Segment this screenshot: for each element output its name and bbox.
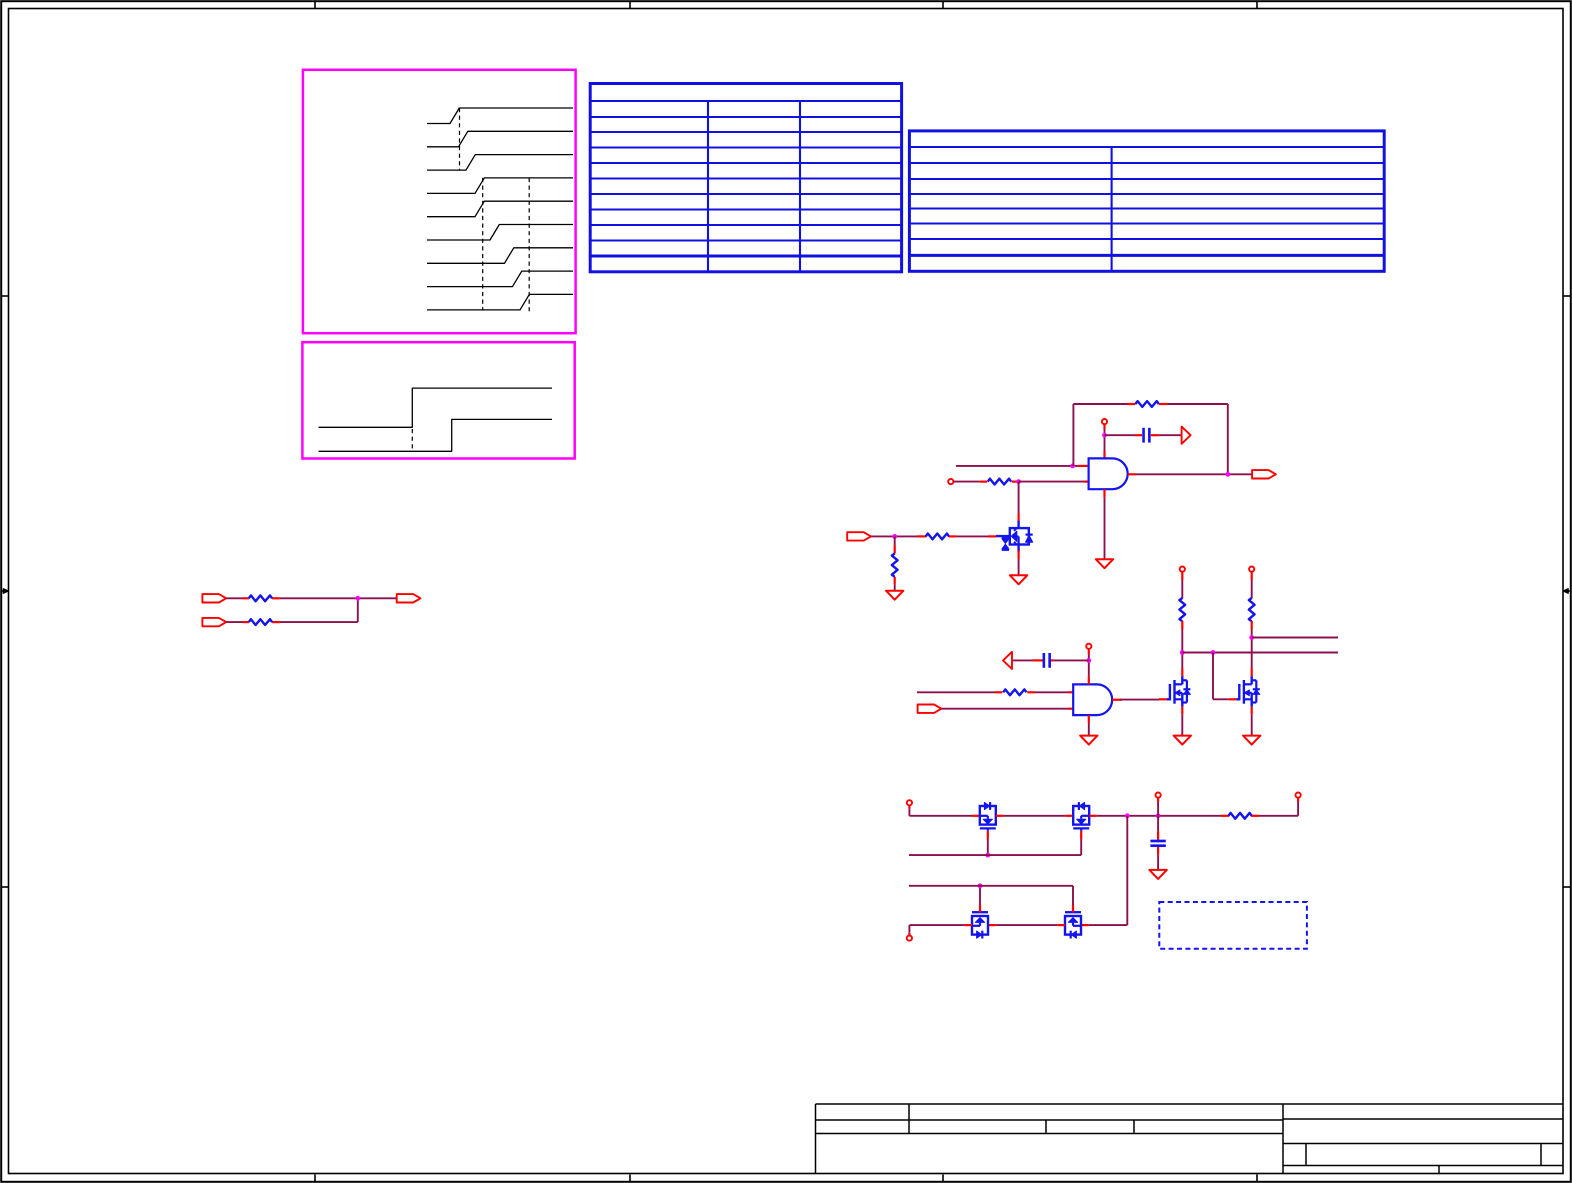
- transistor M4 (NMOS switch): [1065, 910, 1081, 939]
- resistor R3 feedback: [1136, 401, 1159, 407]
- title block right section: [1283, 1119, 1563, 1174]
- wire ESD vertical: [1018, 482, 1020, 513]
- wire U2 input1: [917, 691, 995, 693]
- border zone ticks left and right: [1, 296, 1571, 887]
- resistor R9 (vertical): [1249, 598, 1255, 621]
- terminal circle cap node top: [1156, 793, 1161, 798]
- pin ESD top: [1017, 513, 1019, 522]
- op U1 AND gate: [1089, 458, 1128, 489]
- wire Q2 source to ground: [1251, 714, 1253, 735]
- junction M1 gate bus: [985, 853, 990, 858]
- capacitor C1 pins: [1135, 434, 1159, 436]
- wire feedback right vertical: [1227, 404, 1229, 474]
- resistor R1 pins: [243, 597, 280, 599]
- resistor R4 pins: [980, 481, 1019, 483]
- resistor R10 pins: [1221, 815, 1259, 817]
- ground Q1: [1174, 736, 1191, 745]
- ground C3: [1149, 870, 1166, 879]
- wire feedback top left: [1073, 403, 1127, 405]
- wire feedback top right: [1168, 403, 1228, 405]
- pin U2 vcc upper: [1088, 649, 1090, 655]
- resistor R8 (vertical): [1179, 598, 1185, 621]
- terminal circle bottom right: [1296, 793, 1301, 798]
- pin M3 gate: [979, 905, 981, 912]
- border center arrow left: [1, 589, 8, 594]
- resistor R10: [1228, 813, 1251, 819]
- wire R2 to node A: [280, 598, 358, 622]
- port IN2 (left network): [202, 618, 226, 626]
- wire C3 to ground: [1157, 855, 1159, 870]
- ground U1: [1096, 559, 1113, 568]
- port triangle left (C2 net): [1003, 652, 1012, 669]
- wire R4 to U1 in2: [1019, 481, 1084, 483]
- junction R4 / ESD: [1016, 479, 1021, 484]
- pin C3 top: [1157, 831, 1159, 840]
- wire IN4 to U2: [941, 708, 1068, 710]
- ground Q2: [1243, 736, 1260, 745]
- pin M4 left: [1057, 924, 1065, 926]
- port IN4 (U2 input2): [918, 705, 942, 713]
- resistor R7: [1003, 689, 1026, 695]
- pin R9 top: [1251, 572, 1253, 580]
- resistor R6 pins: [894, 545, 896, 584]
- wire ESD to ground: [1018, 559, 1020, 575]
- wire cap node lower: [1157, 816, 1159, 831]
- wire gate bus bottom pair: [909, 885, 1073, 887]
- table 1 (blue grid, header + 11 rows x 3 cols): [590, 84, 901, 272]
- op U2 AND gate: [1073, 684, 1112, 715]
- pin Q1 drain: [1181, 669, 1183, 677]
- pin Q2 gate: [1228, 698, 1236, 700]
- junction M3 gate bus: [978, 883, 983, 888]
- wire U1 ground: [1104, 498, 1106, 560]
- ground R6: [886, 591, 903, 600]
- pin M3 right: [988, 924, 996, 926]
- wire IN3 to node B: [871, 535, 917, 537]
- pin M1 left: [972, 815, 980, 817]
- pin U1 input1: [1078, 465, 1089, 467]
- transistor M2 (PMOS switch): [1073, 802, 1089, 831]
- port IN1 (left network): [202, 594, 226, 602]
- wire IN2 to R2: [226, 621, 242, 623]
- resistor R2: [249, 619, 272, 625]
- junction U2 vcc / C2: [1086, 658, 1091, 663]
- pin U2 vcc lower: [1088, 676, 1090, 684]
- pin U2 ground upper: [1088, 715, 1090, 723]
- ground U2: [1080, 736, 1097, 745]
- junction node B: [892, 534, 897, 539]
- port triangle right (C1 net): [1182, 427, 1191, 444]
- timing waveform B box2: [319, 419, 553, 451]
- pin M2 right: [1089, 815, 1097, 817]
- wire feedback left vertical: [1072, 404, 1074, 466]
- timing waveforms box1 (9 staircase signals): [427, 108, 573, 310]
- terminal circle bottom left top: [907, 800, 912, 805]
- timing diagram box 1 (magenta): [303, 70, 576, 333]
- pin Q2 drain: [1251, 669, 1253, 677]
- pin cap node up: [1157, 798, 1159, 802]
- resistor R4: [988, 479, 1011, 485]
- transistor M3 (NMOS switch): [972, 910, 988, 939]
- terminal circle pullup R9: [1249, 567, 1254, 572]
- wire R8 to Q1 drain: [1181, 630, 1183, 669]
- pin R8 top: [1181, 572, 1183, 580]
- wire R8 upper: [1181, 580, 1183, 598]
- capacitor C2: [1044, 653, 1050, 668]
- wire U1 vcc: [1104, 430, 1106, 452]
- transistor Q2 (NMOS): [1236, 676, 1259, 707]
- wire R7 to U2: [1035, 691, 1068, 693]
- pin C3 bottom: [1157, 847, 1159, 855]
- pin U1 input2: [1084, 481, 1089, 483]
- wire C1 to port: [1159, 434, 1182, 436]
- pin U2 input2: [1068, 708, 1073, 710]
- junction Q1 drain node: [1180, 650, 1185, 655]
- timing dashed cursor box2: [411, 429, 413, 451]
- junction U1 out / feedback: [1225, 472, 1230, 477]
- wire U2 out to Q1 gate: [1120, 699, 1159, 701]
- wire U1 output: [1136, 473, 1252, 475]
- pin R8 bottom: [1181, 621, 1183, 630]
- wire R10 to circle: [1259, 802, 1298, 816]
- resistor R7 pins: [995, 691, 1035, 693]
- wire R6 to ground: [894, 584, 896, 590]
- wire R9 upper: [1251, 580, 1253, 598]
- wire M3 gate up: [979, 886, 981, 905]
- resistor R2 pins: [243, 621, 280, 623]
- resistor R3 feedback pins: [1127, 403, 1168, 405]
- pin M3 left: [964, 924, 972, 926]
- wire M2 to cap node: [1097, 815, 1221, 817]
- junction Q2 gate tap: [1211, 650, 1216, 655]
- pin circle bottom left: [908, 933, 910, 936]
- timing dashed cursor 1: [459, 108, 461, 170]
- capacitor C2 pins: [1033, 659, 1054, 661]
- port OUT2 (U1 output): [1252, 470, 1276, 478]
- pin M4 gate: [1072, 905, 1074, 912]
- junction bridge node: [1125, 813, 1130, 818]
- junction cap node: [1156, 813, 1161, 818]
- pin U1 ground upper: [1103, 489, 1105, 497]
- table 2 (blue grid, header + 8 rows x 2 cols): [909, 131, 1384, 271]
- wire R5 to ESD: [956, 535, 996, 537]
- wire C2 to port: [1012, 659, 1033, 661]
- pin M1 right: [996, 815, 1004, 817]
- wire node B down: [894, 536, 896, 545]
- wire R1 to node A: [280, 597, 397, 599]
- pin Q1 source: [1181, 707, 1183, 715]
- wire Q1 source to ground: [1181, 714, 1183, 735]
- wire Q2 gate tap: [1213, 653, 1228, 700]
- pin U1 vcc upper: [1103, 424, 1105, 429]
- wire bridge vertical: [1089, 816, 1128, 925]
- pin Q1 gate: [1159, 698, 1167, 700]
- wire R9 to Q2 drain: [1251, 630, 1253, 669]
- transistor Q1 (NMOS): [1167, 676, 1190, 707]
- pin U2 output: [1112, 699, 1122, 701]
- resistor R5: [926, 534, 949, 540]
- wire U2 vcc: [1088, 655, 1090, 677]
- resistor R1: [249, 595, 272, 601]
- junction U1 in1 / feedback: [1070, 464, 1075, 469]
- wire M1 gate down: [987, 839, 989, 855]
- pin Q2 source: [1251, 707, 1253, 715]
- wire U2 ground: [1088, 723, 1090, 736]
- pin M2 gate: [1080, 831, 1082, 839]
- wire cap node upper: [1157, 802, 1159, 816]
- junction U1 vcc / C1: [1102, 433, 1107, 438]
- node A junction: [355, 596, 360, 601]
- terminal circle VCC U1: [1102, 419, 1107, 424]
- wire to M1: [909, 808, 972, 815]
- pin U2 input1: [1068, 691, 1073, 693]
- wire in2 to R4: [953, 481, 979, 483]
- border center arrow right: [1563, 589, 1571, 594]
- resistor R6 (vertical): [892, 554, 898, 577]
- capacitor C3 (to ground): [1150, 841, 1165, 846]
- wire IN1 to R1: [226, 597, 242, 599]
- pin M1 gate: [987, 831, 989, 839]
- pin U1 vcc lower: [1103, 451, 1105, 458]
- esd protection D1: [996, 521, 1033, 552]
- wire gate bus top pair: [909, 854, 1081, 856]
- pin M4 right: [1081, 924, 1089, 926]
- wire U1 input1: [956, 465, 1078, 467]
- pin R10 net up: [1297, 798, 1299, 802]
- pin R9 bottom: [1251, 621, 1253, 630]
- pin M2 left: [1066, 815, 1074, 817]
- timing waveform A box2: [319, 388, 553, 427]
- wire vcc to C1: [1105, 434, 1136, 436]
- timing dashed cursor 3: [528, 178, 530, 312]
- border zone ticks top and bottom: [315, 1, 1257, 1182]
- pin U1 output: [1128, 473, 1136, 475]
- ground ESD: [1010, 575, 1027, 584]
- transistor M1 (PMOS switch): [980, 802, 996, 831]
- title block left section: [816, 1104, 1564, 1174]
- wire net2 (Q1 drain bus): [1182, 652, 1338, 654]
- wire C2 right: [1054, 659, 1089, 661]
- port OUT1 (left network): [397, 594, 421, 602]
- wire M4 gate up: [1072, 886, 1074, 905]
- resistor R5 pins: [917, 535, 956, 537]
- terminal circle U2 vcc: [1086, 644, 1091, 649]
- wire net1 (Q2 drain bus): [1252, 637, 1338, 639]
- wire M3 to circle: [909, 925, 964, 933]
- wire M2 gate down: [1080, 839, 1082, 855]
- terminal circle pullup R8: [1180, 567, 1185, 572]
- junction Q2 drain node: [1249, 635, 1254, 640]
- pin ESD bottom: [1017, 550, 1019, 559]
- wire M3-M4: [996, 924, 1057, 926]
- timing diagram box 2 (magenta): [302, 342, 574, 458]
- note box (dashed blue): [1159, 902, 1307, 949]
- pin circle to wire: [908, 805, 910, 808]
- terminal circle U1 input2: [948, 479, 953, 484]
- capacitor C1: [1144, 428, 1150, 443]
- port IN3 (ESD branch): [847, 532, 871, 540]
- terminal circle bottom left lower: [907, 936, 912, 941]
- wire M1-M2: [1003, 815, 1065, 817]
- timing dashed cursor 2: [482, 178, 484, 311]
